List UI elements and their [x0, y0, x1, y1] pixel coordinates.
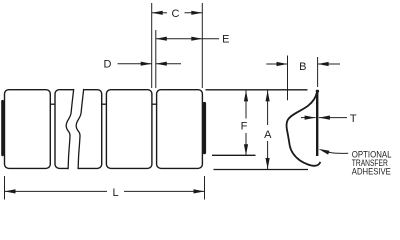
- dimension C line: [152, 12, 167, 14]
- dimension L extension left: [4, 176, 6, 200]
- dimension T arrows: [301, 117, 316, 119]
- right end tab: [203, 104, 206, 153]
- extension line finger4 left edge: [155, 30, 157, 88]
- finger 2 outline (broken): [55, 90, 102, 169]
- svg-text:C: C: [172, 8, 180, 20]
- extension line finger4 right edge: [201, 3, 203, 88]
- extension line finger3 right edge: [151, 3, 153, 88]
- break wavy line right: [76, 89, 84, 169]
- tie bar slot 2: [102, 103, 107, 105]
- dimension B arrows: [266, 63, 287, 65]
- dimension B extension right: [317, 57, 319, 87]
- svg-text:D: D: [104, 59, 112, 71]
- dimension F: [245, 90, 247, 118]
- dimension B extension left: [287, 56, 289, 101]
- dimension L extension right: [204, 176, 206, 200]
- svg-text:ADHESIVE: ADHESIVE: [352, 166, 391, 176]
- profile adhesive strip line: [316, 93, 318, 156]
- tie bar slot 1: [50, 103, 55, 105]
- side view F reference line: [212, 154, 256, 156]
- adhesive leader arrow: [318, 147, 330, 155]
- profile curved finger: [287, 93, 321, 166]
- dimension L line: [5, 190, 108, 192]
- side view top line: [206, 89, 308, 91]
- break wavy line left: [66, 89, 74, 169]
- profile ball top: [316, 90, 319, 93]
- svg-text:L: L: [113, 187, 119, 199]
- svg-text:B: B: [299, 61, 306, 73]
- finger 4 outline: [157, 90, 203, 169]
- svg-text:A: A: [264, 129, 272, 141]
- dimension D arrows: [118, 63, 152, 65]
- break gap white mask: [66, 88, 84, 170]
- svg-text:E: E: [222, 34, 229, 46]
- tie bar slot 3: [152, 103, 157, 105]
- svg-text:T: T: [350, 113, 357, 125]
- adhesive leader line: [328, 152, 348, 153]
- dimension E line: [156, 38, 219, 40]
- finger 3 outline: [106, 90, 151, 169]
- left end tab: [1, 101, 4, 155]
- finger 1 outline: [5, 90, 51, 169]
- svg-text:F: F: [241, 121, 248, 133]
- side view bottom line: [214, 169, 309, 171]
- dimension A: [267, 90, 269, 125]
